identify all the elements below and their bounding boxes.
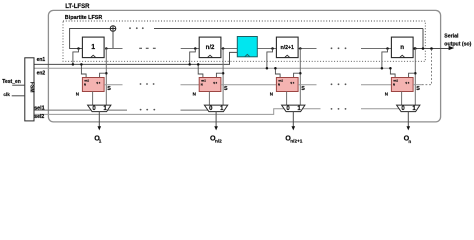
ellipsis dots sel row gap2 — [331, 108, 333, 110]
flip-flop n/2+1 — [276, 37, 298, 58]
svg-text:q s: q s — [96, 82, 100, 85]
wire xor output down to shift chain — [112, 32, 114, 49]
wire latch 4 output to mux — [401, 92, 403, 106]
serial output wire — [413, 48, 449, 50]
svg-text:clk: clk — [3, 92, 10, 97]
wire S input of cell4 — [361, 84, 391, 86]
svg-text:sel2: sel2 — [34, 114, 44, 120]
svg-text:Serial: Serial — [444, 33, 459, 39]
svg-text:N: N — [278, 83, 280, 87]
flip-flop n — [391, 37, 413, 58]
svg-text:en1: en1 — [84, 79, 89, 83]
output arrow O3 — [292, 112, 294, 127]
ellipsis dots shift row gap2 — [331, 47, 333, 49]
output arrow O4 — [407, 112, 409, 127]
S output wire of latch 2 — [221, 84, 277, 86]
flip-flop n/2 — [199, 37, 221, 58]
node FF4 input dot + branch to bus — [386, 47, 389, 50]
svg-text:LT-LFSR: LT-LFSR — [65, 4, 90, 10]
ellipsis dashes shift row gap1 — [139, 48, 142, 49]
wire latch 2 output to mux — [208, 92, 210, 106]
svg-text:S: S — [416, 86, 420, 92]
svg-text:N: N — [193, 91, 196, 96]
svg-text:en1: en1 — [201, 79, 206, 83]
svg-text:FSM: FSM — [28, 82, 34, 93]
svg-text:en1: en1 — [37, 57, 46, 63]
svg-text:N: N — [393, 83, 395, 87]
svg-text:Test_en: Test_en — [2, 79, 21, 85]
svg-text:n/2+1: n/2+1 — [290, 139, 303, 144]
latch 3 (pink box) — [276, 78, 298, 92]
wire S input of cell2 — [181, 84, 200, 86]
svg-text:n/2: n/2 — [215, 139, 222, 144]
S output wire of latch 3 — [298, 84, 316, 86]
svg-text:en2: en2 — [37, 71, 46, 77]
node FF3 input dot + branch to bus — [271, 47, 274, 50]
svg-text:N: N — [385, 91, 388, 96]
node FF3 output dot + vertical to mux — [299, 47, 302, 50]
svg-text:n: n — [400, 44, 404, 51]
svg-text:sel1: sel1 — [34, 105, 45, 111]
node FF4 output dot + vertical to mux — [414, 47, 417, 50]
node FF1 output dot + vertical to mux — [105, 47, 108, 50]
latch 1 (pink box) — [82, 78, 104, 92]
svg-text:N: N — [84, 83, 86, 87]
dashed box Bipartite LFSR — [63, 21, 425, 61]
bus en2 — [34, 67, 390, 69]
svg-text:q s: q s — [213, 82, 217, 85]
ellipsis dots top row gap1 — [129, 27, 131, 29]
svg-text:N: N — [270, 91, 273, 96]
latch 2 top pins — [216, 73, 223, 77]
svg-text:1: 1 — [99, 139, 102, 144]
svg-text:n: n — [408, 139, 411, 144]
wire latch 3 output to mux — [286, 92, 288, 106]
dashed feedback wire from S of last cell to serial line — [422, 49, 432, 85]
mux 1 — [88, 105, 111, 112]
S output wire of latch 4 — [413, 84, 422, 86]
latch 3 top pins — [294, 73, 301, 77]
S output wire of latch 1 — [104, 84, 122, 86]
ellipsis dots sel row gap1 — [140, 109, 142, 111]
outer enclosure box LT-LFSR — [48, 10, 440, 122]
xor gate — [110, 25, 116, 31]
svg-text:n/2: n/2 — [206, 45, 215, 51]
svg-text:1: 1 — [91, 44, 95, 51]
svg-text:S: S — [224, 86, 228, 92]
svg-text:N: N — [76, 91, 79, 96]
wire latch 1 output to mux — [92, 92, 94, 106]
injector box (cyan) — [237, 37, 257, 57]
latch 2 (pink box) — [199, 78, 221, 92]
latch 4 top pins — [409, 73, 416, 77]
svg-text:N: N — [201, 83, 203, 87]
wire FF n/2+1 output stub — [298, 48, 316, 50]
node FF2 input dot + branch to bus — [194, 47, 197, 50]
svg-text:S: S — [107, 86, 111, 92]
output arrow O1 — [98, 112, 100, 127]
svg-text:en1: en1 — [278, 79, 283, 83]
FSM box — [25, 58, 34, 121]
serial output arrowhead — [449, 46, 455, 50]
svg-text:Bipartite LFSR: Bipartite LFSR — [65, 15, 103, 21]
wire injector to FF n/2+1 — [257, 48, 276, 50]
wire into FF n input — [361, 48, 391, 50]
injector clock notch — [245, 54, 250, 56]
bus en1 — [34, 52, 237, 64]
junction dots serial line — [413, 47, 416, 50]
wire into FF n/2 input — [181, 48, 200, 50]
mux 3 — [282, 105, 305, 112]
node FF2 output dot + vertical to mux — [222, 47, 225, 50]
bus sel2 — [34, 109, 399, 115]
svg-text:q s: q s — [405, 82, 409, 85]
latch 4 (pink box) — [391, 78, 413, 92]
wire feedback left corner into FF 1 input — [70, 29, 111, 49]
wire FF1 output stub — [106, 48, 122, 50]
flip-flop 1 — [82, 37, 104, 58]
ellipsis dots S row gap1 — [140, 83, 142, 85]
svg-text:en1: en1 — [393, 79, 398, 83]
wire FF n/2 to injector — [221, 48, 237, 50]
ellipsis dots S row gap2 — [331, 83, 333, 85]
mux 4 — [397, 105, 420, 112]
svg-text:S: S — [301, 86, 305, 92]
svg-text:output (so): output (so) — [444, 41, 471, 47]
mux 2 — [204, 105, 227, 112]
output arrow O2 — [215, 112, 217, 127]
node FF1 input dot + branch to bus — [77, 47, 80, 50]
wire feedback top from XOR to right column — [154, 28, 423, 30]
bus sel1 — [34, 109, 208, 111]
wire feedback right vertical to serial line — [422, 29, 424, 49]
latch 1 top pins — [100, 73, 107, 77]
svg-text:n/2+1: n/2+1 — [280, 45, 294, 51]
svg-text:q s: q s — [290, 82, 294, 85]
